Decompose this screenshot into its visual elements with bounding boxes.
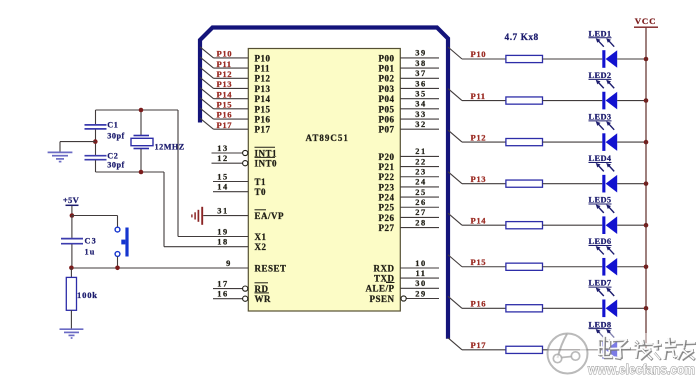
svg-text:33: 33	[415, 110, 427, 119]
pin P25 (pin 26)	[379, 198, 440, 213]
node junction button/reset	[115, 266, 120, 271]
svg-text:LED5: LED5	[589, 196, 612, 205]
wire LED1 to VCC rail	[617, 58, 646, 60]
svg-text:RESET: RESET	[255, 263, 287, 273]
svg-text:100k: 100k	[77, 290, 98, 300]
svg-text:P12: P12	[471, 132, 487, 142]
pin WR (pin 16)	[213, 290, 271, 304]
net label P17 (left)	[217, 120, 233, 130]
watermark url www.elecfans.com	[587, 362, 695, 377]
ground (reset resistor)	[60, 329, 84, 338]
wire LED2 to VCC rail	[617, 100, 646, 102]
wire bus stub to pin P17	[200, 118, 248, 129]
svg-text:P10: P10	[217, 49, 233, 59]
svg-text:9: 9	[226, 259, 232, 268]
wire crystal bottom net (X2)	[96, 172, 165, 247]
wire resistor to LED7	[543, 307, 603, 309]
svg-text:AT89C51: AT89C51	[306, 133, 349, 143]
svg-text:P01: P01	[379, 63, 395, 73]
label resistor pack 4.7Kx8	[505, 33, 539, 43]
svg-text:C1: C1	[107, 121, 118, 130]
svg-text:P11: P11	[217, 59, 232, 69]
svg-text:22: 22	[415, 157, 427, 166]
svg-text:P13: P13	[471, 174, 487, 184]
pin P01 (pin 38)	[379, 59, 440, 74]
wire row 5 to resistor	[462, 224, 506, 226]
svg-text:P26: P26	[379, 213, 395, 223]
svg-text:LED4: LED4	[589, 154, 612, 163]
svg-text:P25: P25	[379, 203, 395, 213]
svg-text:35: 35	[415, 89, 427, 98]
node junction VCC row 5	[644, 223, 649, 228]
net label P12 (left)	[217, 69, 233, 79]
net label P16 (left)	[217, 110, 233, 120]
wire resistor to LED3	[543, 141, 603, 143]
pin T1 (pin 15)	[213, 173, 266, 187]
pin X1 (pin 19)	[178, 228, 267, 242]
svg-text:P13: P13	[255, 84, 271, 94]
svg-text:LED2: LED2	[589, 71, 612, 80]
svg-text:X2: X2	[255, 242, 267, 252]
node junction VCC row 6	[644, 264, 649, 269]
svg-text:25: 25	[415, 188, 427, 197]
resistor R7	[506, 305, 543, 312]
svg-text:1u: 1u	[85, 247, 96, 256]
node junction crystal top	[139, 108, 144, 113]
resistor R1	[506, 55, 543, 62]
pin name P15	[255, 104, 271, 114]
svg-text:C3: C3	[85, 236, 97, 245]
pin P20 (pin 21)	[379, 147, 440, 162]
node junction C1-C2	[93, 139, 98, 144]
pin PSEN (pin 29)	[369, 289, 439, 304]
pin P03 (pin 36)	[379, 79, 440, 94]
resistor R4	[506, 180, 543, 187]
resistor R6	[506, 263, 543, 270]
pin P27 (pin 28)	[379, 218, 440, 233]
svg-text:P22: P22	[379, 172, 395, 182]
power +5V	[63, 195, 80, 215]
svg-text:P11: P11	[255, 63, 271, 73]
LED1 diode	[589, 29, 618, 67]
wire resistor to LED6	[543, 266, 603, 268]
node junction crystal bottom	[139, 170, 144, 175]
svg-text:P07: P07	[379, 125, 395, 135]
net label P16 (right)	[471, 299, 487, 309]
svg-text:38: 38	[415, 59, 427, 68]
svg-text:P14: P14	[217, 89, 233, 99]
svg-text:P12: P12	[217, 69, 233, 79]
svg-text:VCC: VCC	[635, 16, 656, 26]
pin RESET (pin 9)	[71, 259, 286, 273]
net label P15 (right)	[471, 257, 487, 267]
svg-text:P17: P17	[255, 125, 271, 135]
svg-text:LED7: LED7	[589, 279, 612, 288]
wire +5V to button	[72, 216, 118, 228]
svg-text:34: 34	[415, 100, 427, 109]
svg-text:LED3: LED3	[589, 113, 612, 122]
svg-text:EA/VP: EA/VP	[255, 211, 285, 221]
svg-text:P27: P27	[379, 223, 395, 233]
svg-text:P00: P00	[379, 53, 395, 63]
wire row 3 to resistor	[462, 141, 506, 143]
svg-text:30: 30	[415, 279, 427, 288]
wire row 4 to resistor	[462, 183, 506, 185]
wire LED5 to VCC rail	[617, 224, 646, 226]
svg-text:27: 27	[415, 208, 427, 217]
svg-text:39: 39	[415, 49, 427, 58]
LED8 diode	[589, 320, 618, 358]
svg-text:10: 10	[415, 259, 427, 268]
pin name P12	[255, 74, 271, 84]
wire bus stub to pin P14	[200, 88, 248, 99]
svg-text:P15: P15	[217, 100, 233, 110]
wire row 2 to resistor	[462, 100, 506, 102]
svg-text:P16: P16	[255, 114, 271, 124]
svg-text:17: 17	[217, 280, 229, 289]
bus P1 (thick navy)	[200, 28, 448, 339]
LED6 diode	[589, 237, 618, 275]
svg-text:P16: P16	[217, 110, 233, 120]
svg-text:31: 31	[217, 207, 229, 216]
svg-text:X1: X1	[255, 232, 267, 242]
node junction VCC row 1	[644, 57, 649, 62]
pin name P13	[255, 84, 271, 94]
wire row 7 to resistor	[462, 307, 506, 309]
wire bus stub row 5	[448, 213, 462, 225]
svg-text:P17: P17	[471, 340, 487, 350]
pin T0 (pin 14)	[213, 183, 266, 197]
svg-text:PSEN: PSEN	[369, 294, 394, 304]
svg-text:12: 12	[217, 154, 229, 163]
svg-text:P21: P21	[379, 162, 395, 172]
svg-text:P24: P24	[379, 192, 395, 202]
net label P13 (right)	[471, 174, 487, 184]
wire to ground tap	[60, 142, 95, 152]
wire bus stub to pin P16	[200, 108, 248, 119]
pin P05 (pin 34)	[379, 100, 440, 115]
svg-text:26: 26	[415, 198, 427, 207]
net label P15 (left)	[217, 100, 233, 110]
LED2 diode	[589, 71, 618, 109]
pin P23 (pin 24)	[379, 178, 440, 193]
svg-text:P13: P13	[217, 79, 233, 89]
resistor R9 100k	[66, 268, 98, 329]
pin name P14	[255, 94, 271, 104]
svg-text:RXD: RXD	[374, 263, 395, 273]
wire LED7 to VCC rail	[617, 307, 646, 309]
LED3 diode	[589, 113, 618, 151]
node junction VCC row 3	[644, 140, 649, 145]
svg-text:32: 32	[415, 120, 427, 129]
svg-text:LED6: LED6	[589, 237, 612, 246]
svg-text:P15: P15	[255, 104, 271, 114]
watermark text dianzifashaoyou	[599, 336, 696, 360]
svg-text:30pf: 30pf	[107, 132, 124, 141]
wire bus stub row 3	[448, 130, 462, 142]
wire resistor to LED2	[543, 100, 603, 102]
svg-text:P17: P17	[217, 120, 233, 130]
svg-text:T0: T0	[255, 187, 267, 197]
svg-text:36: 36	[415, 79, 427, 88]
wire bus stub to pin P11	[200, 57, 248, 68]
svg-text:P14: P14	[471, 215, 487, 225]
pin P22 (pin 23)	[379, 168, 440, 183]
net label P14 (right)	[471, 215, 487, 225]
wire row 6 to resistor	[462, 266, 506, 268]
wire button to reset net	[117, 256, 119, 267]
svg-text:T1: T1	[255, 177, 267, 187]
net label P13 (left)	[217, 79, 233, 89]
net label P10 (left)	[217, 49, 233, 59]
svg-text:16: 16	[217, 290, 229, 299]
svg-text:37: 37	[415, 69, 427, 78]
svg-text:P04: P04	[379, 94, 395, 104]
net label P11 (left)	[217, 59, 232, 69]
svg-text:LED8: LED8	[589, 320, 612, 329]
svg-text:12MHZ: 12MHZ	[155, 143, 185, 152]
wire bus stub to pin P15	[200, 98, 248, 109]
wire bus stub row 1	[448, 47, 462, 59]
svg-text:28: 28	[415, 218, 427, 227]
wire resistor to LED1	[543, 58, 603, 60]
wire LED4 to VCC rail	[617, 183, 646, 185]
pin P21 (pin 22)	[379, 157, 440, 172]
svg-text:P15: P15	[471, 257, 487, 267]
pin RXD (pin 10)	[374, 259, 440, 274]
svg-text:P23: P23	[379, 182, 395, 192]
wire bus stub row 6	[448, 255, 462, 267]
svg-text:P03: P03	[379, 84, 395, 94]
svg-text:WR: WR	[255, 294, 272, 304]
wire resistor to LED5	[543, 224, 603, 226]
resistor R8	[506, 346, 543, 353]
net label P17 (right)	[471, 340, 487, 350]
wire RESET net	[71, 267, 248, 269]
node junction VCC row 7	[644, 306, 649, 311]
pin P06 (pin 33)	[379, 110, 440, 125]
node junction C3/reset	[69, 266, 74, 271]
svg-text:24: 24	[415, 178, 427, 187]
svg-text:14: 14	[217, 183, 229, 192]
pin P07 (pin 32)	[379, 120, 440, 135]
pin P02 (pin 37)	[379, 69, 440, 84]
watermark white wash	[580, 333, 697, 377]
svg-text:www.elecfans.com: www.elecfans.com	[587, 362, 695, 377]
chassis ground on EA/VP	[192, 207, 202, 225]
svg-text:21: 21	[415, 147, 427, 156]
pin INT0 (pin 12)	[212, 154, 278, 168]
wire bus stub to pin P13	[200, 77, 248, 88]
net label P12 (right)	[471, 132, 487, 142]
ground (crystal caps)	[48, 152, 73, 161]
svg-text:P14: P14	[255, 94, 271, 104]
wire resistor to LED4	[543, 183, 603, 185]
svg-text:C2: C2	[107, 151, 118, 160]
resistor R3	[506, 139, 543, 146]
pin P04 (pin 35)	[379, 89, 440, 104]
pin INT1 (pin 13)	[212, 144, 278, 158]
svg-text:11: 11	[415, 269, 426, 278]
watermark elecfans logo	[548, 334, 588, 374]
resistor R5	[506, 222, 543, 229]
svg-text:19: 19	[217, 228, 229, 237]
svg-text:P10: P10	[255, 53, 271, 63]
svg-text:15: 15	[217, 173, 229, 182]
svg-text:+5V: +5V	[63, 195, 80, 205]
wire bus stub row 2	[448, 89, 462, 101]
wire bus stub to pin P12	[200, 67, 248, 78]
svg-text:P05: P05	[379, 104, 395, 114]
svg-text:P06: P06	[379, 114, 395, 124]
svg-text:ALE/P: ALE/P	[365, 284, 394, 294]
svg-text:23: 23	[415, 168, 427, 177]
IC U1 AT89C51 body	[248, 49, 400, 312]
pin P24 (pin 25)	[379, 188, 440, 203]
svg-text:30pf: 30pf	[107, 160, 124, 169]
wire LED3 to VCC rail	[617, 141, 646, 143]
push button S1	[115, 227, 129, 256]
pin RD (pin 17)	[213, 280, 269, 294]
pin name P11	[255, 63, 271, 73]
wire bus stub row 7	[448, 296, 462, 308]
pin EA/VP (pin 31)	[203, 207, 284, 221]
pin TXD (pin 11)	[374, 269, 439, 284]
net label P11 (right)	[471, 91, 486, 101]
svg-text:P10: P10	[471, 49, 487, 59]
LED7 diode	[589, 279, 618, 317]
svg-text:18: 18	[217, 238, 229, 247]
svg-text:INT0: INT0	[255, 159, 278, 169]
pin P26 (pin 27)	[379, 208, 440, 223]
capacitor C1	[85, 110, 125, 155]
pin ALE/P (pin 30)	[365, 279, 439, 294]
wire LED8 to VCC rail	[617, 349, 646, 351]
capacitor C3	[61, 216, 97, 268]
capacitor C2	[85, 151, 125, 172]
node junction VCC row 2	[644, 98, 649, 103]
svg-text:P20: P20	[379, 152, 395, 162]
node junction VCC row 4	[644, 181, 649, 186]
wire VCC rail	[645, 28, 647, 350]
LED4 diode	[589, 154, 618, 192]
svg-text:P02: P02	[379, 74, 395, 84]
net label P14 (left)	[217, 89, 233, 99]
wire crystal top net (X1)	[96, 110, 179, 237]
svg-text:13: 13	[217, 144, 229, 153]
wire bus stub row 4	[448, 172, 462, 184]
wire row 1 to resistor	[462, 58, 506, 60]
svg-text:P16: P16	[471, 299, 487, 309]
svg-text:29: 29	[415, 289, 427, 298]
LED5 diode	[589, 196, 618, 234]
wire bus stub row 8	[448, 338, 462, 350]
node junction +5V / button branch	[70, 213, 75, 218]
wire bus stub to pin P10	[200, 47, 248, 58]
resistor R2	[506, 97, 543, 104]
pin name P17	[255, 125, 271, 135]
pin X2 (pin 18)	[164, 238, 267, 252]
svg-text:4.7 Kx8: 4.7 Kx8	[505, 33, 539, 43]
pin name P10	[255, 53, 271, 63]
wire row 8 to resistor	[462, 349, 506, 351]
crystal Y1 12MHZ	[131, 110, 185, 172]
power VCC	[634, 16, 658, 27]
wire resistor to LED8	[543, 349, 603, 351]
net label P10 (right)	[471, 49, 487, 59]
svg-text:P11: P11	[471, 91, 486, 101]
svg-text:P12: P12	[255, 74, 271, 84]
pin P00 (pin 39)	[379, 49, 440, 64]
wire LED6 to VCC rail	[617, 266, 646, 268]
svg-text:LED1: LED1	[589, 29, 612, 38]
pin name P16	[255, 114, 271, 124]
